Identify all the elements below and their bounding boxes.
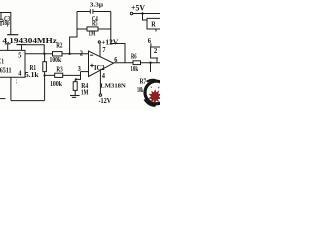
node C junction dot <box>68 53 70 55</box>
svg-text:3: 3 <box>78 64 81 73</box>
svg-text:1M: 1M <box>89 28 96 37</box>
wire box R pin stub <box>155 29 157 32</box>
svg-text:R3: R3 <box>56 65 63 74</box>
crystal Y1 left plate <box>5 43 11 45</box>
resistor R3 <box>55 73 63 77</box>
IC U1 box <box>0 50 25 77</box>
wire crystal to IC1 top <box>21 45 23 50</box>
watermark logo ring <box>144 79 168 109</box>
svg-text:100k: 100k <box>50 55 62 64</box>
node F junction dot <box>141 12 143 14</box>
op-amp plus sign <box>90 64 94 68</box>
svg-text:18p: 18p <box>2 19 10 27</box>
svg-text:+5V: +5V <box>131 3 145 12</box>
crystal Y1 top plate <box>7 34 18 36</box>
node D junction dot <box>75 78 77 80</box>
resistor R1 <box>44 54 46 62</box>
svg-text:4.194304MHz: 4.194304MHz <box>2 37 58 45</box>
wire IC1 pin5 to node A / resistor R2 wire <box>25 53 89 55</box>
svg-text:1M: 1M <box>81 88 89 97</box>
ground <box>70 95 80 97</box>
svg-text:100k: 100k <box>50 79 63 88</box>
svg-text:6: 6 <box>148 36 151 45</box>
svg-text:R5: R5 <box>92 20 98 28</box>
op-amp U2 triangle <box>89 51 114 77</box>
resistor R2 <box>53 52 63 56</box>
svg-text:5.1k: 5.1k <box>25 70 39 79</box>
svg-text:IC2: IC2 <box>94 63 105 72</box>
svg-text:w: w <box>152 100 158 109</box>
IC box2 (cropped) <box>151 47 161 58</box>
svg-text:R7: R7 <box>140 77 147 86</box>
svg-text:R2: R2 <box>56 41 63 50</box>
wire IC1 bottom to ground rail <box>10 77 12 100</box>
svg-text:4: 4 <box>18 69 21 78</box>
wire top-left rail to C3/crystal <box>0 13 11 35</box>
wire pin3 jog <box>76 72 81 80</box>
terminal -12V circle <box>99 94 101 96</box>
resistor R5 <box>77 28 111 30</box>
wire pin7 to +12V <box>99 43 101 56</box>
node A junction dot <box>43 53 45 55</box>
wire R7 stub <box>150 63 152 72</box>
svg-text:-12V: -12V <box>98 96 111 105</box>
wire feedback left leg <box>70 12 77 54</box>
svg-text:10k: 10k <box>137 85 144 94</box>
node E output junction dot <box>149 62 151 64</box>
wire pin4 to -12V <box>99 70 101 94</box>
IC box R (cropped) <box>147 18 161 29</box>
svg-text:6511: 6511 <box>0 66 12 75</box>
svg-text:5: 5 <box>18 50 21 59</box>
resistor R4 <box>74 79 76 81</box>
svg-text:LM318N: LM318N <box>100 82 126 89</box>
wire output pin6 <box>114 62 161 64</box>
wire +5V to box R <box>143 14 148 21</box>
wire crystal left pin to IC1 top <box>7 44 9 50</box>
wire op-amp pin3 <box>81 71 89 73</box>
svg-text:4: 4 <box>102 71 105 80</box>
resistor R6 <box>133 61 141 65</box>
svg-text:2: 2 <box>154 46 158 55</box>
wire ground rail <box>11 100 45 102</box>
terminal +12V circle <box>98 41 100 43</box>
svg-text:+12V: +12V <box>101 37 119 46</box>
crystal Y1 bottom plate <box>17 44 27 46</box>
svg-text:C1: C1 <box>0 57 4 65</box>
terminal +5V circle <box>130 12 132 14</box>
wire box2 bottom to output <box>156 59 158 63</box>
wire pin4 dashed stub <box>16 79 18 83</box>
svg-text:6: 6 <box>114 55 117 64</box>
wire +5V rail <box>133 13 160 15</box>
wire crystal to node A <box>27 45 45 54</box>
svg-text:R: R <box>151 20 156 29</box>
wire left edge stub <box>0 98 6 100</box>
capacitor C4 <box>77 11 111 13</box>
node B junction dot on R1 leg <box>44 74 46 76</box>
svg-text:3.3μ: 3.3μ <box>90 1 103 8</box>
svg-text:10k: 10k <box>130 64 138 73</box>
wire feedback right leg <box>111 12 125 63</box>
wire R3 row <box>45 74 81 76</box>
svg-text:2: 2 <box>80 48 83 57</box>
capacitor C3 <box>0 13 3 27</box>
watermark red emblem <box>148 86 162 104</box>
op-amp minus sign <box>90 54 93 56</box>
svg-text:R6: R6 <box>131 51 137 60</box>
wire pin6 into box2 <box>150 43 152 47</box>
